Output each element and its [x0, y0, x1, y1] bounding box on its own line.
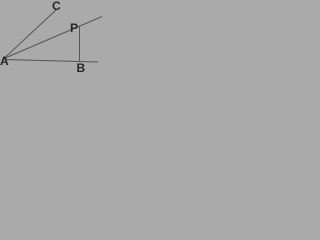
svg-text:A: A: [0, 54, 9, 68]
svg-text:C: C: [52, 0, 61, 13]
svg-text:B: B: [77, 61, 86, 75]
svg-text:P: P: [70, 21, 78, 35]
